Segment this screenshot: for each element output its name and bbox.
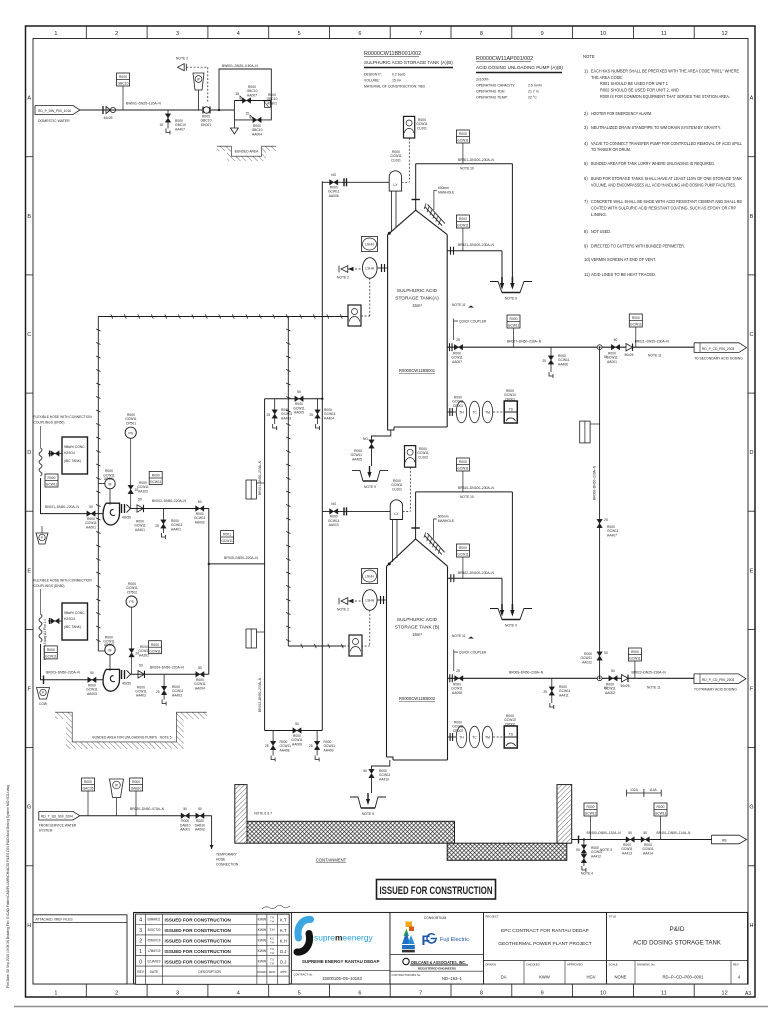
- rotated instrument box riser 1 top: [246, 480, 265, 499]
- svg-text:B: B: [27, 214, 31, 220]
- svg-text:VERMIN SCREEN AT END OF VENT.: VERMIN SCREEN AT END OF VENT.: [591, 257, 656, 262]
- svg-text:GCW11: GCW11: [585, 812, 597, 816]
- svg-text:QUICK COUPLER: QUICK COUPLER: [459, 320, 487, 324]
- svg-text:TH: TH: [459, 736, 464, 740]
- svg-text:KWW: KWW: [258, 959, 267, 963]
- svg-text:2: 2: [115, 991, 118, 997]
- svg-text:17MAY19: 17MAY19: [147, 949, 160, 953]
- wire domestic water main: [80, 109, 234, 111]
- wire dashed LI to gauge: [408, 138, 410, 182]
- svg-text:T.H: T.H: [270, 941, 274, 945]
- svg-text:50x25: 50x25: [621, 684, 630, 688]
- svg-text:GCW11: GCW11: [630, 323, 642, 327]
- svg-text:1: 1: [54, 31, 57, 37]
- wire pump A suction: [41, 478, 105, 514]
- svg-text:DESIGN P:: DESIGN P:: [364, 73, 382, 77]
- wire discharge collector vertical: [208, 509, 210, 675]
- svg-text:1: 1: [54, 991, 57, 997]
- valve drain R000 GCW11 AA404: [309, 399, 335, 430]
- svg-text:12: 12: [722, 991, 728, 997]
- valve R000 GCW11 AA012: [581, 651, 608, 664]
- wire signal header horizontal: [98, 314, 348, 318]
- label NOTE 11 quick coupler B: [452, 634, 487, 671]
- svg-text:NOTE 9: NOTE 9: [364, 485, 376, 489]
- svg-text:R000: R000: [151, 643, 159, 647]
- flange BR400: [578, 836, 580, 844]
- svg-text:GEOTHERMAL POWER PLANT PROJECT: GEOTHERMAL POWER PLANT PROJECT: [498, 941, 591, 947]
- svg-text:AA001: AA001: [180, 828, 190, 832]
- svg-text:DESCRIPTION: DESCRIPTION: [198, 970, 221, 974]
- svg-text:BR400–DN50–132A–N: BR400–DN50–132A–N: [587, 831, 622, 835]
- instrument TS box tank B: [493, 714, 517, 748]
- wire signal stub to motor M01: [98, 482, 105, 484]
- svg-text:GCW11: GCW11: [457, 467, 469, 471]
- wire BR009 outlet tank B: [448, 677, 695, 679]
- svg-text:GCW11: GCW11: [45, 655, 57, 659]
- wire BR310 vent header B: [416, 491, 513, 493]
- svg-text:AA407: AA407: [607, 533, 617, 537]
- wire BR421 downcomer: [501, 251, 503, 277]
- svg-text:11: 11: [661, 991, 667, 997]
- valve R000 GCW11 AA003 suction B: [86, 671, 98, 696]
- ibc tank B: [62, 603, 88, 640]
- svg-text:R000: R000: [119, 75, 127, 79]
- valve R000 GCW11 AA008: [328, 173, 340, 198]
- instrument box vent B: [456, 458, 469, 471]
- funnel note2 top: [176, 57, 188, 71]
- svg-text:50: 50: [363, 769, 367, 773]
- pump R000 GCW11 AP001: [103, 469, 119, 525]
- svg-text:25: 25: [309, 413, 313, 417]
- wire LSHH stub to tank A: [377, 267, 388, 269]
- node service water flag: [39, 811, 80, 820]
- svg-text:0: 0: [139, 959, 142, 965]
- wire tank A vent riser: [415, 164, 417, 211]
- svg-text:K.H: K.H: [280, 939, 287, 944]
- wire signal drop left to pump motors: [96, 317, 100, 652]
- svg-text:GCW11: GCW11: [150, 480, 162, 484]
- svg-text:AA404: AA404: [324, 416, 334, 420]
- svg-text:AA401: AA401: [171, 527, 181, 531]
- valve R000 GBC10 DK001: [201, 107, 212, 127]
- svg-text:98wt% CONC.: 98wt% CONC.: [64, 445, 86, 449]
- svg-text:BR301–DN100–230A–N: BR301–DN100–230A–N: [458, 158, 495, 162]
- svg-text:DRAWN: DRAWN: [486, 963, 496, 967]
- svg-text:NOTE: NOTE: [583, 54, 595, 59]
- svg-text:10: 10: [600, 31, 606, 37]
- valve R000 GBC10 AA004: [245, 112, 262, 137]
- svg-text:CR001: CR001: [505, 397, 515, 401]
- wire manifold top AA405: [265, 398, 323, 400]
- instrument box BR022: [628, 648, 641, 661]
- valve drain R000 GCW11 AA409: [309, 731, 335, 762]
- valve hose coupling A: [48, 451, 62, 457]
- wire BF005 transfer line: [209, 563, 265, 565]
- svg-text:T.U: T.U: [270, 947, 274, 951]
- svg-text:AA401: AA401: [135, 528, 145, 532]
- svg-text:NOTE 2: NOTE 2: [176, 57, 188, 61]
- svg-text:TM: TM: [485, 736, 490, 740]
- svg-text:G: G: [27, 805, 31, 811]
- display box LI tank B: [405, 446, 429, 468]
- node gauge to tank B wall: [388, 562, 391, 565]
- svg-text:600mm: 600mm: [438, 515, 449, 519]
- svg-text:25: 25: [604, 518, 608, 522]
- svg-text:TH: TH: [459, 411, 464, 415]
- valve R000 GBC10 AA007: [235, 85, 257, 103]
- svg-text:08MAR21: 08MAR21: [147, 918, 160, 922]
- instrument box discharge A: [149, 472, 162, 485]
- valve drain R000 GCW11 AA411: [543, 678, 570, 709]
- svg-text:BK001–DN50–220A–N: BK001–DN50–220A–N: [45, 505, 80, 509]
- grid column ticks top: [86, 26, 694, 39]
- eductor IP: [193, 73, 204, 110]
- svg-text:COATED WITH SULFURIC ACID RESI: COATED WITH SULFURIC ACID RESISTANT COAT…: [591, 205, 736, 210]
- svg-text:AA002: AA002: [195, 520, 205, 524]
- wire gauge standpipe: [390, 191, 392, 231]
- equipment header tank data block: [364, 51, 453, 89]
- svg-text:15 m³: 15 m³: [392, 79, 402, 83]
- svg-text:4: 4: [237, 991, 240, 997]
- svg-text:BK004–DN50–220A–N: BK004–DN50–220A–N: [150, 666, 185, 670]
- svg-text:R002 SHOULD BE USED FOR UNIT 2: R002 SHOULD BE USED FOR UNIT 2, AND: [600, 88, 679, 93]
- svg-text:TC: TC: [472, 411, 477, 415]
- svg-text:AA008: AA008: [329, 194, 339, 198]
- svg-text:ISSUED FOR CONSTRUCTION: ISSUED FOR CONSTRUCTION: [165, 939, 232, 944]
- wire BR007 outlet tank A: [447, 346, 694, 348]
- svg-text:BW001–DN25–0.50A–N: BW001–DN25–0.50A–N: [222, 64, 258, 68]
- svg-text:DATE: DATE: [150, 970, 159, 974]
- instrument box BR400: [584, 803, 597, 816]
- svg-text:R0000CW11BB001: R0000CW11BB001: [399, 368, 436, 373]
- svg-text:RD_P_CD_P00_2003: RD_P_CD_P00_2003: [702, 347, 734, 351]
- svg-text:R000: R000: [459, 460, 467, 464]
- svg-text:R000: R000: [84, 780, 92, 784]
- svg-text:LSHH: LSHH: [365, 243, 374, 247]
- svg-text:AA403: AA403: [281, 416, 291, 420]
- svg-text:50: 50: [89, 505, 93, 509]
- tank B bottom drain step: [387, 757, 394, 760]
- svg-text:A3: A3: [745, 991, 751, 997]
- svg-text:AA414: AA414: [643, 851, 653, 855]
- svg-text:25: 25: [456, 338, 460, 342]
- grid row ticks right: [748, 157, 755, 866]
- valve R000 GCW11 AA410: [363, 769, 390, 793]
- svg-text:APPROVED: APPROVED: [567, 963, 583, 967]
- hose connection ATB01: [263, 93, 278, 108]
- svg-text:R000: R000: [587, 805, 595, 809]
- flange vent B: [411, 527, 419, 529]
- bunded area ground hatch top: [217, 147, 276, 162]
- wire LX line tank B: [322, 510, 390, 512]
- svg-text:CL002: CL002: [418, 455, 428, 459]
- svg-text:AA012: AA012: [582, 660, 592, 664]
- svg-text:KWW: KWW: [258, 949, 267, 953]
- svg-text:A: A: [750, 96, 754, 102]
- scan page edge bottom: [14, 1006, 768, 1008]
- svg-text:ACID DOSING STORAGE TANK: ACID DOSING STORAGE TANK: [633, 941, 721, 947]
- svg-text:11: 11: [661, 31, 667, 37]
- svg-text:RD_P_DW_P00_1016: RD_P_DW_P00_1016: [38, 109, 71, 113]
- svg-text:3: 3: [176, 991, 179, 997]
- svg-text:BR009–DN50–230A–N: BR009–DN50–230A–N: [509, 671, 544, 675]
- svg-text:TO PRIMARY ACID DOSING: TO PRIMARY ACID DOSING: [694, 688, 737, 692]
- svg-text:RD_P_CD_P00_2003: RD_P_CD_P00_2003: [702, 678, 734, 682]
- svg-text:CONTRACT No.: CONTRACT No.: [294, 973, 313, 977]
- svg-text:HOSE: HOSE: [216, 858, 226, 862]
- valve R000 GCW11 AA004 discharge B: [194, 666, 206, 691]
- svg-text:OPERATING TDH:: OPERATING TDH:: [476, 90, 505, 94]
- svg-text:BUND FOR STORAGE TANKS SHALL H: BUND FOR STORAGE TANKS SHALL HAVE AT LEA…: [591, 176, 742, 181]
- wire tank B vent riser: [415, 492, 417, 539]
- grid column numbers top: [54, 31, 727, 37]
- svg-text:3: 3: [139, 928, 142, 934]
- svg-text:2: 2: [139, 939, 142, 945]
- svg-text:AA202: AA202: [139, 653, 149, 657]
- svg-text:NOTE 10: NOTE 10: [460, 167, 474, 171]
- svg-text:AA102: AA102: [138, 489, 148, 493]
- svg-text:50: 50: [139, 663, 143, 667]
- svg-text:AA004: AA004: [195, 686, 205, 690]
- valve drain R000 GCW11 AA403: [267, 399, 293, 430]
- svg-text:R000: R000: [459, 132, 467, 136]
- instrument LSHH tank A framed: [362, 237, 378, 252]
- svg-text:P&ID: P&ID: [670, 926, 685, 933]
- relief valve drain A: [155, 509, 182, 540]
- bunded area unloading pumps pit: [55, 713, 207, 750]
- svg-text:AA007: AA007: [247, 93, 257, 97]
- svg-text:4): 4): [584, 141, 588, 146]
- svg-text:2): 2): [584, 111, 588, 116]
- svg-text:SCALE: SCALE: [609, 963, 618, 967]
- funnel note2 tank A: [337, 266, 349, 280]
- svg-text:CR002: CR002: [505, 722, 515, 726]
- svg-text:50x25: 50x25: [625, 353, 634, 357]
- svg-text:RD–P–CD–P00–0001: RD–P–CD–P00–0001: [663, 975, 705, 980]
- instrument box suction A: [45, 474, 58, 487]
- svg-text:R000: R000: [132, 780, 140, 784]
- containment upper floor: [247, 821, 455, 843]
- svg-text:AA003: AA003: [87, 692, 97, 696]
- svg-text:50: 50: [90, 671, 94, 675]
- tank R0000CW11BB001 outline: [388, 210, 448, 235]
- svg-text:15000105–05–10183: 15000105–05–10183: [322, 976, 362, 981]
- svg-text:LSHH: LSHH: [365, 267, 374, 271]
- valve R000 GCW11 AA414: [641, 831, 654, 855]
- svg-text:CONSORTIUM: CONSORTIUM: [424, 916, 447, 920]
- valve R000 GBC10 AA407: [159, 110, 186, 135]
- svg-text:AA005: AA005: [294, 411, 304, 415]
- svg-text:AA405: AA405: [352, 457, 362, 461]
- svg-text:BK003–DN50–220A–N: BK003–DN50–220A–N: [46, 671, 81, 675]
- svg-text:TITLE: TITLE: [609, 915, 617, 919]
- svg-text:GCW11: GCW11: [457, 224, 469, 228]
- svg-text:M: M: [109, 482, 112, 486]
- svg-text:2: 2: [115, 31, 118, 37]
- svg-text:TC: TC: [472, 736, 477, 740]
- svg-text:EACH KKS NUMBER SHALL BE PREFI: EACH KKS NUMBER SHALL BE PREFIXED WITH T…: [591, 69, 739, 74]
- svg-text:1: 1: [139, 949, 142, 955]
- svg-text:AA002: AA002: [605, 691, 615, 695]
- instrument box BR401: [654, 803, 667, 816]
- svg-text:CONTAINMENT: CONTAINMENT: [316, 858, 347, 863]
- wire signal horiz to LX box B: [288, 644, 344, 648]
- svg-text:CR002: CR002: [453, 729, 463, 733]
- flange vent A: [412, 199, 420, 201]
- svg-text:AA410: AA410: [379, 777, 389, 781]
- svg-text:AA412: AA412: [591, 854, 601, 858]
- valve R000 DAB10 AA002: [195, 807, 206, 832]
- svg-text:B: B: [750, 214, 754, 220]
- svg-text:50: 50: [138, 498, 142, 502]
- svg-text:COUPLINGS (DN50): COUPLINGS (DN50): [34, 584, 65, 588]
- svg-text:3): 3): [584, 125, 588, 130]
- svg-text:R000: R000: [47, 648, 55, 652]
- svg-text:KWW: KWW: [539, 975, 550, 980]
- wire riser BR101 vertical: [264, 399, 266, 731]
- svg-text:10: 10: [600, 991, 606, 997]
- svg-text:D.J: D.J: [280, 949, 286, 954]
- grid column numbers bottom: [54, 991, 727, 997]
- project block: [484, 913, 607, 985]
- svg-text:TO SECONDARY ACID DOSING: TO SECONDARY ACID DOSING: [694, 357, 743, 361]
- instrument box BF005: [221, 531, 234, 544]
- svg-text:R000: R000: [631, 650, 639, 654]
- manhole tank B: [424, 515, 455, 555]
- svg-text:15: 15: [159, 123, 163, 127]
- svg-text:AA411: AA411: [559, 693, 569, 697]
- svg-text:5: 5: [298, 991, 301, 997]
- svg-text:FLEXIBLE HOSE WITH CONNECTION: FLEXIBLE HOSE WITH CONNECTION: [34, 415, 93, 419]
- svg-text:supremeenergy: supremeenergy: [314, 933, 373, 943]
- wire LX line tank A: [322, 181, 389, 183]
- svg-text:GCW11: GCW11: [655, 812, 667, 816]
- svg-text:TEMPORARY: TEMPORARY: [216, 853, 238, 857]
- funnel note9 tank B overflow: [490, 604, 532, 628]
- svg-text:BR101–DN50–230A–N: BR101–DN50–230A–N: [258, 460, 262, 495]
- valve R000 GCW11 AA002: [604, 669, 617, 695]
- svg-text:K.T: K.T: [280, 918, 287, 923]
- funnel note2 tank B: [337, 598, 349, 612]
- svg-text:DELCANS & ASSOCIATES, INC.: DELCANS & ASSOCIATES, INC.: [411, 960, 466, 965]
- check valve pump A: [134, 498, 146, 532]
- svg-text:APPD: APPD: [280, 971, 287, 974]
- svg-text:AA402: AA402: [136, 694, 146, 698]
- display box LX tank B signal: [349, 635, 362, 656]
- svg-text:GCW11: GCW11: [508, 324, 520, 328]
- wire leader hose B: [40, 589, 42, 614]
- svg-text:BR310–DN100–230A–N: BR310–DN100–230A–N: [458, 486, 495, 490]
- svg-text:CHECKED: CHECKED: [526, 963, 540, 967]
- supreme energy logo block: [291, 913, 390, 985]
- svg-text:DRAWN: DRAWN: [257, 971, 266, 974]
- svg-text:BUNDED AREA FOR TANK LORRY WHE: BUNDED AREA FOR TANK LORRY WHERE UNLOADI…: [591, 161, 715, 166]
- flange suction B left: [43, 676, 45, 685]
- svg-text:40x50: 40x50: [122, 516, 131, 520]
- check valve and reducer 50x25 B: [621, 675, 630, 688]
- svg-text:5: 5: [298, 31, 301, 37]
- instrument box BR402: [456, 544, 469, 557]
- pump R000 GCW11 AP002: [103, 635, 119, 691]
- svg-text:50: 50: [576, 848, 580, 852]
- svg-text:AP001: AP001: [104, 477, 114, 481]
- svg-text:7): 7): [584, 199, 588, 204]
- instrument box BR007: [507, 315, 520, 328]
- svg-text:A: A: [27, 96, 31, 102]
- svg-text:R0000CW11BB001/002: R0000CW11BB001/002: [364, 51, 421, 57]
- node junction: [218, 109, 220, 111]
- wire branch to hose loop: [219, 69, 271, 110]
- instrument box vent A: [456, 130, 469, 143]
- svg-text:NOTE 2: NOTE 2: [337, 276, 349, 280]
- svg-text:CONCRETE WALL SHALL BE MADE WI: CONCRETE WALL SHALL BE MADE WITH ACID RE…: [591, 199, 742, 204]
- svg-text:ISSUED FOR CONSTRUCTION: ISSUED FOR CONSTRUCTION: [380, 885, 493, 897]
- svg-text:50: 50: [611, 669, 615, 673]
- svg-text:CONTRACTOR DRG No: CONTRACTOR DRG No: [392, 973, 421, 977]
- wire vent B downcomer to funnel: [511, 492, 513, 604]
- svg-text:KWW: KWW: [258, 928, 267, 932]
- check valve pump B: [135, 663, 147, 697]
- svg-text:GCW11: GCW11: [221, 539, 233, 543]
- svg-text:4: 4: [139, 918, 142, 924]
- svg-text:DOMESTIC WATER: DOMESTIC WATER: [38, 119, 70, 123]
- svg-text:NOTE 9: NOTE 9: [362, 812, 374, 816]
- svg-text:BUNDED AREA: BUNDED AREA: [235, 150, 259, 154]
- svg-text:50: 50: [643, 831, 647, 835]
- svg-text:BR021–DN25–230A–N: BR021–DN25–230A–N: [635, 340, 670, 344]
- svg-text:AA406: AA406: [558, 362, 568, 366]
- svg-text:50: 50: [628, 831, 632, 835]
- svg-text:40x25: 40x25: [104, 116, 113, 120]
- svg-text:114A: 114A: [649, 788, 657, 792]
- svg-text:25: 25: [543, 690, 547, 694]
- flexible hose B: [39, 614, 42, 642]
- node flag RB: [712, 835, 747, 844]
- svg-text:GCW11: GCW11: [149, 649, 161, 653]
- svg-text:AA006: AA006: [292, 742, 302, 746]
- svg-text:E: E: [750, 568, 754, 574]
- svg-text:40x50: 40x50: [122, 681, 131, 685]
- grid row ticks left: [26, 157, 34, 866]
- svg-text:NOTE 9: NOTE 9: [505, 624, 517, 628]
- svg-text:DK001: DK001: [201, 123, 211, 127]
- svg-text:TM: TM: [485, 411, 490, 415]
- svg-text:12: 12: [722, 31, 728, 37]
- svg-text:H2SO4: H2SO4: [64, 451, 75, 455]
- svg-text:REV: REV: [137, 970, 145, 974]
- svg-text:FLEXIBLE HOSE WITH CONNECTION: FLEXIBLE HOSE WITH CONNECTION: [34, 579, 93, 583]
- svg-text:R000: R000: [152, 474, 160, 478]
- svg-text:STORAGE TANK(A): STORAGE TANK(A): [395, 296, 439, 302]
- svg-text:AA001: AA001: [607, 360, 617, 364]
- handwritten note above table: [262, 905, 290, 909]
- svg-text:R0000CW11BB002: R0000CW11BB002: [399, 696, 436, 701]
- funnel drain pump B: [37, 688, 50, 706]
- svg-text:K.T: K.T: [280, 928, 287, 933]
- instrument TS box tank A: [493, 389, 517, 423]
- svg-text:05NOV19: 05NOV19: [147, 939, 160, 943]
- drain branch note4: [576, 840, 602, 876]
- svg-text:9: 9: [541, 991, 544, 997]
- node flag to primary acid dosing: [694, 674, 746, 684]
- svg-text:G: G: [749, 805, 753, 811]
- svg-text:NOTE 11: NOTE 11: [452, 303, 466, 307]
- svg-text:BF005–DN50–220A–N: BF005–DN50–220A–N: [224, 556, 258, 560]
- svg-text:NO: NO: [331, 502, 336, 506]
- svg-text:GAC05: GAC05: [83, 787, 94, 791]
- svg-text:R0000CW11AP001/002: R0000CW11AP001/002: [476, 56, 533, 62]
- svg-text:R000: R000: [459, 546, 467, 550]
